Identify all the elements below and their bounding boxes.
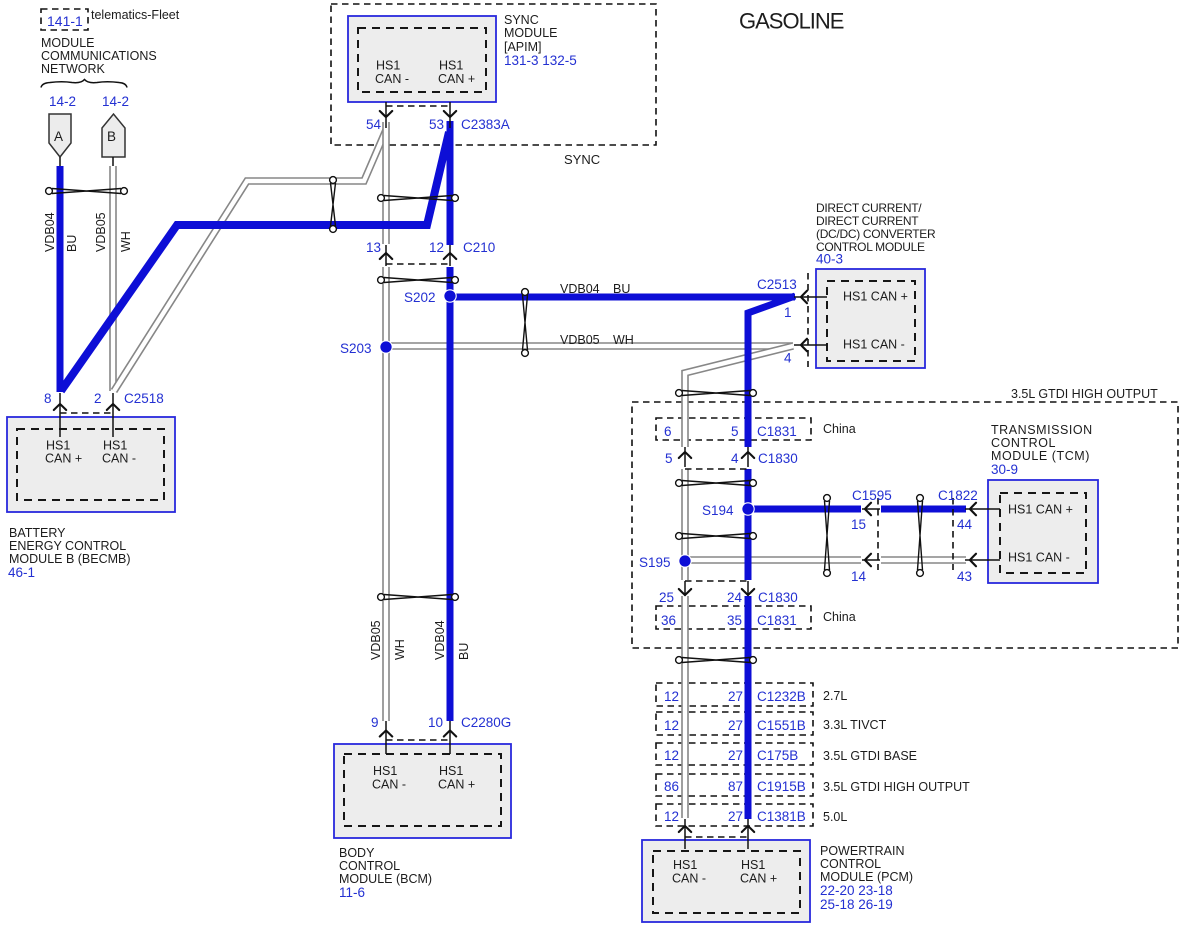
twisted pair symbol (vertical, S194/S195 runs) <box>824 495 831 577</box>
svg-text:3.5L GTDI BASE: 3.5L GTDI BASE <box>823 749 917 763</box>
svg-text:C1915B: C1915B <box>757 779 806 794</box>
svg-text:C1830: C1830 <box>758 451 798 466</box>
wire HS1 CAN- vertical from lower C1830 to PCM pin 12 <box>681 596 689 818</box>
connector B <box>102 114 125 157</box>
svg-text:VDB04: VDB04 <box>43 212 57 252</box>
svg-text:C1822: C1822 <box>938 488 978 503</box>
svg-text:53: 53 <box>429 117 444 132</box>
svg-text:12: 12 <box>429 240 444 255</box>
grid reference box 141-1 <box>41 9 88 30</box>
svg-text:China: China <box>823 610 856 624</box>
svg-text:4: 4 <box>784 351 792 366</box>
svg-text:VDB04: VDB04 <box>560 282 600 296</box>
svg-text:GASOLINE: GASOLINE <box>739 9 844 34</box>
connector C2513 dashed link <box>807 273 809 367</box>
svg-text:12: 12 <box>664 689 679 704</box>
svg-text:25: 25 <box>659 590 674 605</box>
svg-text:VDB05: VDB05 <box>369 620 383 660</box>
svg-text:HS1 CAN -: HS1 CAN - <box>1008 551 1070 565</box>
svg-text:54: 54 <box>366 117 382 132</box>
splice S195 <box>679 555 691 567</box>
svg-text:141-1: 141-1 <box>47 13 83 29</box>
svg-text:C1831: C1831 <box>757 424 797 439</box>
wire VDB04 pin 53 down to pin 12 <box>447 121 454 245</box>
connector C1232B dashed box <box>656 683 813 706</box>
connector C175B dashed box <box>656 743 813 765</box>
svg-text:CAN -: CAN - <box>102 452 136 466</box>
twisted pair symbol (above GTDI box) <box>676 390 757 397</box>
connector C2518 dashed link <box>60 412 113 414</box>
pin 27 (PCM) <box>747 819 749 849</box>
pin 1 <box>794 296 827 298</box>
module BCM body control module <box>334 744 511 838</box>
svg-text:5.0L: 5.0L <box>823 810 847 824</box>
svg-text:SYNC: SYNC <box>564 152 600 167</box>
pin 13 <box>385 245 387 266</box>
svg-text:C1595: C1595 <box>852 488 892 503</box>
wire VDB05 from S203 right to C2513 pin 4 <box>386 342 793 350</box>
svg-text:CONTROL: CONTROL <box>339 859 400 873</box>
twisted pair symbol (above BCM) <box>378 594 459 601</box>
svg-text:CONTROL: CONTROL <box>991 436 1056 450</box>
connector C1822 dashed link <box>952 498 954 570</box>
wire HS1 CAN- S195 to C1595 pin 14 <box>685 556 861 564</box>
wire VDB05 WH from connector B down to pin 2 <box>109 166 117 391</box>
svg-text:CAN +: CAN + <box>438 72 475 86</box>
svg-text:HS1: HS1 <box>439 764 463 778</box>
svg-text:S203: S203 <box>340 341 372 356</box>
svg-text:30-9: 30-9 <box>991 462 1018 477</box>
svg-text:C210: C210 <box>463 240 495 255</box>
svg-text:MODULE B (BECMB): MODULE B (BECMB) <box>9 552 131 566</box>
svg-text:C2513: C2513 <box>757 277 797 292</box>
twisted pair symbol (below S194) <box>676 533 757 540</box>
svg-text:1: 1 <box>784 305 792 320</box>
svg-text:WH: WH <box>393 639 407 660</box>
pin 12 (PCM) <box>684 819 686 849</box>
wire VDB04 BU main bus (A down, diagonal to pin 8, horizontal, diagonal up to pin 53) <box>57 166 64 392</box>
wire HS1 CAN- C1595 to C1822 pin 43 <box>881 556 966 564</box>
connector C1551B dashed box <box>656 712 813 735</box>
pin 44 <box>965 508 1000 510</box>
svg-text:27: 27 <box>728 748 743 763</box>
svg-text:25-18 26-19: 25-18 26-19 <box>820 897 893 912</box>
connector C1830 (top) dashed link <box>685 468 748 470</box>
svg-text:HS1: HS1 <box>103 439 127 453</box>
svg-text:6: 6 <box>664 424 672 439</box>
svg-text:87: 87 <box>728 779 743 794</box>
splice S202 <box>444 290 456 302</box>
svg-text:27: 27 <box>728 809 743 824</box>
svg-text:NETWORK: NETWORK <box>41 62 106 76</box>
svg-text:MODULE (TCM): MODULE (TCM) <box>991 449 1090 463</box>
svg-text:46-1: 46-1 <box>8 565 35 580</box>
pin 14 <box>862 559 880 561</box>
twisted pair symbol (vertical, top-left bus) <box>330 177 337 233</box>
pin 2 <box>112 393 114 437</box>
SYNC outer dashed box <box>331 4 656 145</box>
svg-text:3.5L GTDI HIGH OUTPUT: 3.5L GTDI HIGH OUTPUT <box>823 780 970 794</box>
svg-text:BU: BU <box>457 643 471 660</box>
svg-text:22-20 23-18: 22-20 23-18 <box>820 883 893 898</box>
svg-text:27: 27 <box>728 689 743 704</box>
svg-text:VDB05: VDB05 <box>94 212 108 252</box>
svg-text:MODULE (PCM): MODULE (PCM) <box>820 870 913 884</box>
wire HS1 CAN+ vertical from lower C1830 to PCM pin 27 <box>745 596 752 819</box>
svg-text:WH: WH <box>613 333 634 347</box>
svg-text:C2280G: C2280G <box>461 715 511 730</box>
svg-text:BATTERY: BATTERY <box>9 526 66 540</box>
svg-text:3.5L GTDI HIGH OUTPUT: 3.5L GTDI HIGH OUTPUT <box>1011 387 1158 401</box>
connector C1915B dashed box <box>656 774 813 796</box>
PCM connector dashed link <box>685 836 748 838</box>
svg-text:POWERTRAIN: POWERTRAIN <box>820 844 905 858</box>
svg-text:MODULE: MODULE <box>41 36 94 50</box>
twisted pair symbol (below pins 54/53) <box>378 195 459 202</box>
svg-text:BU: BU <box>613 282 630 296</box>
svg-text:TRANSMISSION: TRANSMISSION <box>991 423 1093 437</box>
pin 4 <box>794 344 827 346</box>
svg-text:C2518: C2518 <box>124 391 164 406</box>
pin 53 <box>449 102 451 128</box>
pin 25 <box>684 581 686 596</box>
connector C2280G dashed link <box>386 739 450 741</box>
svg-text:CAN +: CAN + <box>740 872 777 886</box>
connector C1595 dashed link <box>877 498 879 570</box>
svg-text:C1551B: C1551B <box>757 718 806 733</box>
svg-text:C175B: C175B <box>757 748 798 763</box>
svg-text:2: 2 <box>94 391 102 406</box>
connector A <box>49 114 71 157</box>
svg-text:12: 12 <box>664 718 679 733</box>
wire HS1 CAN- vertical through C1830 to lower C1830 <box>681 469 689 580</box>
pin 54 <box>385 102 387 128</box>
svg-text:CAN +: CAN + <box>45 452 82 466</box>
svg-text:HS1: HS1 <box>373 764 397 778</box>
svg-text:HS1: HS1 <box>741 858 765 872</box>
twisted pair symbol (above S194) <box>676 480 757 487</box>
svg-text:S195: S195 <box>639 555 671 570</box>
module BECMB battery energy control module B <box>7 417 175 512</box>
twisted pair symbol (A/B wires) <box>46 188 128 195</box>
dashed region 3.5L GTDI HIGH OUTPUT <box>632 402 1178 648</box>
pin 5 (C1830 top) <box>684 447 686 467</box>
svg-text:9: 9 <box>371 715 379 730</box>
svg-text:WH: WH <box>119 231 133 252</box>
twisted pair symbol (below C210) <box>378 277 459 284</box>
wire HS1 CAN+ C1595 to C1822 pin 44 <box>881 506 966 513</box>
wire VDB04 branch C2513 pin 1 diagonal down to vertical x748 <box>748 296 795 447</box>
svg-text:43: 43 <box>957 569 972 584</box>
pin 4 (C1830 top) <box>747 447 749 467</box>
wire HS1 CAN+ vertical through C1830 down to lower C1830 <box>745 469 752 580</box>
module TCM transmission control module <box>988 480 1098 583</box>
svg-text:DIRECT CURRENT/: DIRECT CURRENT/ <box>816 201 922 215</box>
pin 9 <box>385 721 387 754</box>
connector C210 dashed link <box>386 263 450 265</box>
svg-text:10: 10 <box>428 715 443 730</box>
svg-text:44: 44 <box>957 517 973 532</box>
pin 43 <box>965 559 1000 561</box>
svg-text:11-6: 11-6 <box>339 885 365 900</box>
svg-text:MODULE (BCM): MODULE (BCM) <box>339 872 432 886</box>
svg-text:HS1: HS1 <box>439 59 463 73</box>
module U1 SYNC MODULE [APIM] <box>348 16 496 102</box>
module PCM powertrain control module <box>642 840 810 922</box>
svg-text:BU: BU <box>65 235 79 252</box>
wire VDB05 branch C2513 pin 4 diagonal down to vertical x685 <box>685 346 793 447</box>
connector C1830 (bottom) dashed link <box>685 580 748 582</box>
connector C1381B dashed box <box>656 804 813 826</box>
svg-text:MODULE: MODULE <box>504 26 557 40</box>
svg-text:3.3L TIVCT: 3.3L TIVCT <box>823 718 887 732</box>
twisted pair symbol (below GTDI box) <box>676 657 757 664</box>
svg-text:12: 12 <box>664 748 679 763</box>
svg-text:8: 8 <box>44 391 52 406</box>
svg-text:12: 12 <box>664 809 679 824</box>
connector C1831 (bottom, China) dashed box <box>656 606 811 629</box>
svg-text:CAN -: CAN - <box>672 872 706 886</box>
wire VDB05 branch from pin 54 to pin 2 (diagonal, horizontal, diagonal) <box>114 130 386 391</box>
svg-text:HS1: HS1 <box>46 439 70 453</box>
twisted pair symbol (vertical, C1595-C1822 runs) <box>917 495 924 577</box>
svg-text:C2383A: C2383A <box>461 117 510 132</box>
splice S203 <box>380 341 392 353</box>
svg-text:CAN -: CAN - <box>375 72 409 86</box>
svg-text:24: 24 <box>727 590 743 605</box>
module DC/DC converter control module <box>816 269 925 368</box>
svg-text:40-3: 40-3 <box>816 252 843 267</box>
svg-text:27: 27 <box>728 718 743 733</box>
svg-text:B: B <box>107 129 116 144</box>
connector C2383A dashed link <box>386 105 450 107</box>
svg-text:2.7L: 2.7L <box>823 689 847 703</box>
wire VDB05 pin 54 down to pin 13 <box>382 122 390 244</box>
wire VDB04 pin 12 down through S202 to BCM pin 10 <box>447 267 454 721</box>
svg-text:C1232B: C1232B <box>757 689 806 704</box>
svg-text:DIRECT CURRENT: DIRECT CURRENT <box>816 214 919 228</box>
pin 24 <box>747 581 749 596</box>
svg-text:[APIM]: [APIM] <box>504 40 542 54</box>
svg-text:4: 4 <box>731 451 739 466</box>
svg-text:15: 15 <box>851 517 866 532</box>
wire VDB04 S202 right to C2513 pin 1 <box>450 294 795 301</box>
svg-text:14: 14 <box>851 569 867 584</box>
svg-text:CAN +: CAN + <box>438 778 475 792</box>
svg-text:SYNC: SYNC <box>504 13 539 27</box>
svg-text:HS1: HS1 <box>376 59 400 73</box>
brace over network connectors <box>41 80 127 88</box>
svg-text:C1381B: C1381B <box>757 809 806 824</box>
svg-text:5: 5 <box>665 451 673 466</box>
svg-text:HS1 CAN +: HS1 CAN + <box>1008 503 1073 517</box>
svg-text:S194: S194 <box>702 503 734 518</box>
svg-text:(DC/DC) CONVERTER: (DC/DC) CONVERTER <box>816 227 936 241</box>
svg-text:CONTROL: CONTROL <box>820 857 881 871</box>
connector C1831 (top, China) dashed box <box>656 418 811 440</box>
svg-text:5: 5 <box>731 424 739 439</box>
svg-text:14-2: 14-2 <box>102 94 129 109</box>
svg-text:HS1: HS1 <box>673 858 697 872</box>
pin 8 <box>59 393 61 437</box>
svg-text:35: 35 <box>727 613 742 628</box>
splice S194 <box>742 503 754 515</box>
svg-text:telematics-Fleet: telematics-Fleet <box>91 8 180 22</box>
pin 15 <box>862 508 880 510</box>
svg-text:VDB04: VDB04 <box>433 620 447 660</box>
pin 12 <box>449 245 451 266</box>
svg-text:86: 86 <box>664 779 679 794</box>
svg-text:CAN -: CAN - <box>372 778 406 792</box>
twisted pair symbol (vertical, S202/S203 runs) <box>522 289 529 357</box>
svg-text:COMMUNICATIONS: COMMUNICATIONS <box>41 49 157 63</box>
svg-text:C1830: C1830 <box>758 590 798 605</box>
svg-text:China: China <box>823 422 856 436</box>
svg-text:S202: S202 <box>404 290 436 305</box>
pin 10 <box>449 721 451 754</box>
svg-text:13: 13 <box>366 240 381 255</box>
svg-text:HS1 CAN +: HS1 CAN + <box>843 290 908 304</box>
svg-text:36: 36 <box>661 613 676 628</box>
svg-text:ENERGY CONTROL: ENERGY CONTROL <box>9 539 126 553</box>
svg-text:C1831: C1831 <box>757 613 797 628</box>
svg-text:BODY: BODY <box>339 846 375 860</box>
svg-text:131-3 132-5: 131-3 132-5 <box>504 53 577 68</box>
svg-text:VDB05: VDB05 <box>560 333 600 347</box>
svg-text:14-2: 14-2 <box>49 94 76 109</box>
wire VDB05 pin 13 down through S203 to BCM pin 9 <box>382 267 390 721</box>
svg-text:HS1 CAN -: HS1 CAN - <box>843 338 905 352</box>
wire HS1 CAN+ S194 to C1595 pin 15 <box>748 506 861 513</box>
svg-text:A: A <box>54 129 63 144</box>
